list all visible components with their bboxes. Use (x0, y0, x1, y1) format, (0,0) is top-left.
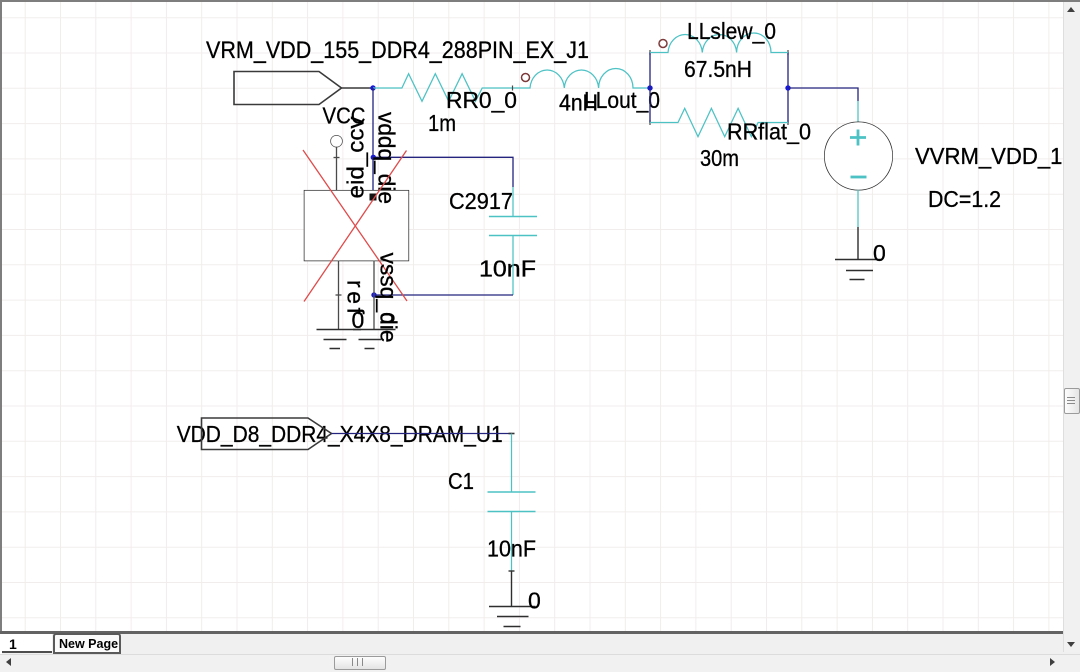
inductor LLout_0 (528, 68, 650, 88)
svg-text:0: 0 (352, 307, 365, 333)
pin tick at LLout_0 input (512, 86, 514, 91)
svg-text:vddq_die: vddq_die (374, 112, 400, 204)
svg-text:RR0_0: RR0_0 (446, 87, 517, 113)
resistor RR0_0 (373, 74, 528, 102)
svg-text:VVRM_VDD_155_DDR4_288PIN_EX_J1: VVRM_VDD_155_DDR4_288PIN_EX_J1 (915, 143, 1080, 169)
wire source top lead (857, 101, 859, 123)
wire junction down to vddq node (372, 88, 374, 157)
junction node vddq_die (371, 155, 376, 160)
resistor RRflat_0 (650, 108, 788, 136)
scrollbar corner (1063, 634, 1080, 654)
capacitor C2917 plates (489, 217, 537, 236)
svg-text:67.5nH: 67.5nH (684, 56, 752, 82)
net flag VRM_VDD_155_DDR4_288PIN_EX_J1 (234, 72, 342, 105)
wire vcc_die pin lead (336, 147, 338, 191)
svg-text:LLout_0: LLout_0 (584, 87, 660, 113)
svg-text:C2917: C2917 (449, 188, 513, 214)
junction node right of parallel RL (785, 85, 790, 90)
svg-text:VRM_VDD_155_DDR4_288PIN_EX_J1: VRM_VDD_155_DDR4_288PIN_EX_J1 (206, 37, 589, 64)
wire source bottom lead (857, 190, 859, 227)
junction node left of parallel RL (647, 85, 652, 90)
wire vddq node to C2917 (373, 157, 513, 187)
v-scroll down arrow (1067, 642, 1075, 647)
capacitor C2917 top lead (512, 187, 514, 217)
junction node vssq_die (371, 292, 376, 297)
svg-text:0: 0 (873, 240, 886, 266)
junction node at resistor input (370, 85, 375, 90)
h-scroll left arrow (6, 658, 11, 666)
svg-text:C1: C1 (448, 468, 474, 494)
svg-text:DC=1.2: DC=1.2 (928, 186, 1001, 212)
component block X4X8_DRAM (305, 191, 409, 261)
ground left under block (317, 330, 362, 349)
capacitor C2917 bottom lead (512, 236, 514, 296)
wire left vertical of parallel RL (649, 53, 651, 123)
vertical scrollbar (1063, 2, 1080, 652)
pin ticks parallel RL corners (650, 50, 788, 125)
window left border (0, 0, 2, 634)
tick on ref lead (336, 294, 342, 296)
red X deactivated mark (303, 150, 407, 302)
voltage source minus (851, 176, 867, 179)
ground right under block (353, 330, 396, 349)
wire C2917 to vssq node (374, 294, 513, 296)
svg-text:1m: 1m (428, 110, 456, 136)
svg-text:0: 0 (376, 313, 398, 324)
svg-text:eid_ccv: eid_ccv (343, 116, 369, 199)
ground of source (835, 260, 882, 280)
svg-text:0: 0 (528, 588, 541, 614)
pin-1 circle of LLslew_0 (659, 40, 667, 48)
capacitor C1 top lead (511, 434, 513, 493)
tab bar (2, 634, 1063, 654)
pin-1 circle of LLout_0 (522, 74, 530, 82)
pin circle VCC node (331, 136, 342, 147)
v-scroll up arrow (1067, 7, 1075, 12)
h-scroll right arrow (1050, 658, 1055, 666)
capacitor C1 bottom lead (511, 512, 513, 572)
tab New Page (53, 633, 121, 654)
net flag VDD_D8_DDR4 (202, 418, 332, 450)
pin square vddq on block (370, 194, 377, 201)
wire flag to C1 (332, 433, 512, 435)
horizontal scrollbar row (0, 654, 1080, 672)
wire right vertical of parallel RL (787, 53, 789, 123)
svg-text:10nF: 10nF (479, 256, 536, 282)
tab 1 active (2, 634, 52, 653)
wire C1 to ground (511, 571, 513, 607)
ground of C1 (489, 607, 536, 627)
wire ref pin lead (338, 261, 340, 330)
voltage source plus (850, 130, 866, 146)
window top border (0, 0, 1080, 2)
wire flag tip to node (342, 87, 374, 89)
tick at C1 ground node (509, 570, 515, 572)
svg-text:RRflat_0: RRflat_0 (727, 119, 811, 145)
wire vssq_die pin lead (373, 261, 375, 330)
tick at C1 top node (509, 433, 515, 435)
svg-text:30m: 30m (700, 145, 739, 171)
voltage source VVRM_VDD_155 circle (825, 122, 893, 190)
canvas bottom separator (0, 631, 1063, 634)
h-scroll thumb (334, 656, 386, 670)
v-scroll thumb (1064, 388, 1080, 414)
wire parallel RL to source (788, 88, 858, 101)
capacitor C1 plates (488, 492, 536, 512)
tick on vcc_die lead (334, 157, 340, 159)
wire vddq_die pin lead (372, 157, 374, 190)
svg-text:LLslew_0: LLslew_0 (687, 18, 776, 44)
wire to ground of source (857, 227, 859, 260)
inductor LLslew_0 (650, 33, 788, 53)
